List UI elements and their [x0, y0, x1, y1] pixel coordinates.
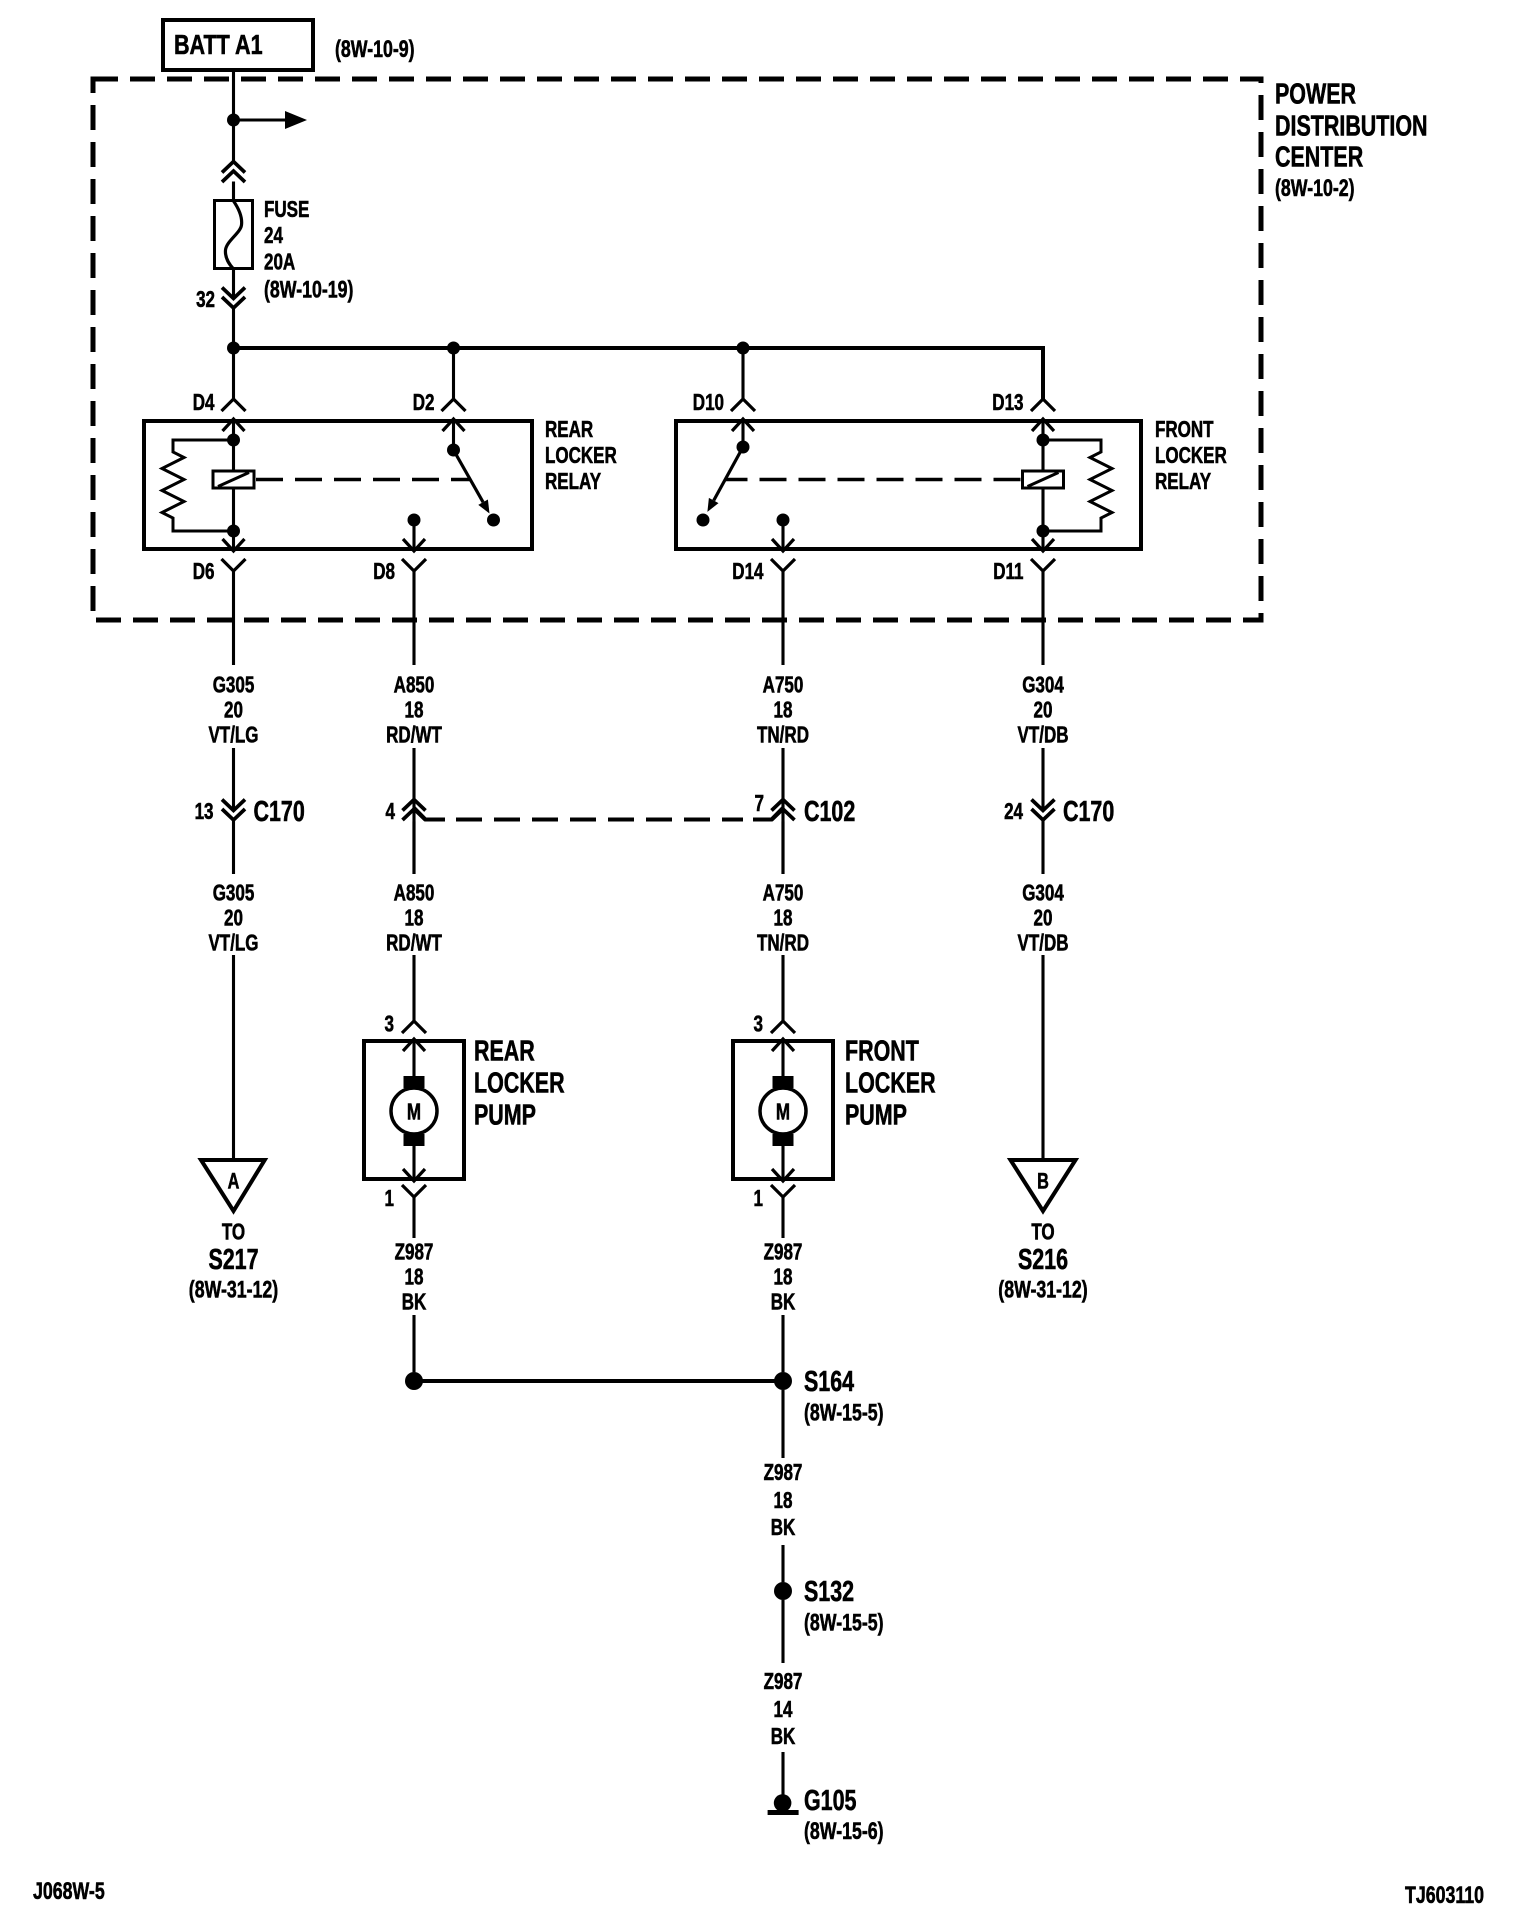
svg-text:D2: D2: [413, 391, 435, 416]
svg-text:A750: A750: [763, 881, 804, 906]
pump terminal arrow pin 3 (front): [772, 1039, 794, 1051]
wire G305 below C170: [232, 820, 235, 874]
svg-text:G305: G305: [213, 881, 255, 906]
svg-text:M: M: [407, 1100, 421, 1125]
svg-text:FRONT: FRONT: [845, 1035, 919, 1067]
wire A750 from D14: [781, 571, 784, 665]
svg-text:D4: D4: [193, 391, 215, 416]
wire A750 to connector C102: [781, 748, 784, 874]
wire motor to pin 1 (front): [781, 1146, 784, 1181]
rear relay coil: [213, 471, 254, 488]
pin D6: [222, 559, 246, 571]
svg-text:POWER: POWER: [1275, 78, 1356, 110]
wire A850 from D8: [412, 571, 415, 665]
svg-text:14: 14: [774, 1698, 794, 1723]
splice junction node (rear pump ground): [405, 1372, 423, 1390]
svg-text:D14: D14: [732, 560, 764, 585]
svg-text:18: 18: [405, 906, 424, 931]
wire G304 below C170: [1041, 820, 1044, 874]
wire A850 to pump pin 3: [412, 955, 415, 1021]
svg-text:FRONT: FRONT: [1155, 418, 1214, 443]
pin 1 of rear locker pump: [402, 1185, 426, 1197]
svg-text:S132: S132: [804, 1576, 854, 1608]
pump terminal arrow pin 3 (rear): [403, 1039, 425, 1051]
relay terminal arrow D13: [1032, 419, 1054, 431]
svg-text:LOCKER: LOCKER: [545, 444, 617, 469]
motor brush terminal bottom (front): [773, 1134, 794, 1146]
pin 3 of rear locker pump: [402, 1021, 426, 1033]
power distribution center dashed box: [93, 79, 1261, 620]
motor M of front locker pump: [760, 1088, 806, 1134]
svg-text:(8W-15-5): (8W-15-5): [804, 1610, 884, 1636]
front relay coil: [1023, 471, 1064, 488]
node coil top (rear relay): [227, 434, 240, 447]
svg-text:C102: C102: [804, 796, 855, 828]
svg-text:(8W-31-12): (8W-31-12): [189, 1277, 278, 1303]
rear relay switch blade: [454, 450, 484, 502]
svg-text:BK: BK: [771, 1290, 796, 1315]
svg-text:C170: C170: [254, 796, 305, 828]
junction node at D10 branch: [737, 342, 750, 355]
front relay switch blade: [714, 447, 743, 501]
wire pin 3 to motor (front): [781, 1039, 784, 1076]
svg-text:3: 3: [754, 1012, 763, 1037]
motor brush terminal bottom (rear): [404, 1134, 425, 1146]
rear relay common contact node D8: [408, 514, 421, 527]
dashed harness link C102: [456, 818, 743, 822]
wire G305 to off-page A: [232, 955, 235, 1160]
wire Z987 from front pump: [781, 1197, 784, 1238]
node coil bottom (front relay): [1037, 525, 1050, 538]
svg-text:13: 13: [195, 800, 214, 825]
rear locker relay box: [144, 421, 532, 549]
bus wire from fuse to relay pins D4 D2 D10 D13: [234, 348, 1044, 399]
wire Z987 rear to splice: [412, 1315, 415, 1372]
pin 3 of front locker pump: [771, 1021, 795, 1033]
svg-text:20: 20: [224, 906, 243, 931]
svg-text:TO: TO: [1031, 1220, 1054, 1245]
ground link wire to S164: [414, 1379, 783, 1383]
relay terminal arrow D14: [772, 539, 794, 551]
off-page connector triangle B: [1011, 1160, 1076, 1211]
wire motor to pin 1 (rear): [412, 1146, 415, 1181]
svg-text:7: 7: [755, 792, 764, 817]
svg-text:18: 18: [405, 698, 424, 723]
off-page connector triangle A: [201, 1160, 265, 1211]
svg-text:S216: S216: [1018, 1244, 1068, 1276]
ground G105 symbol: [774, 1794, 792, 1812]
wire Z987 front to splice S164: [781, 1315, 784, 1372]
svg-text:D11: D11: [993, 560, 1023, 585]
svg-text:DISTRIBUTION: DISTRIBUTION: [1275, 110, 1428, 142]
rear relay normally-open contact node: [487, 514, 500, 527]
svg-text:D13: D13: [992, 391, 1023, 416]
svg-text:RD/WT: RD/WT: [386, 931, 442, 956]
pin D2: [442, 399, 466, 411]
solid stub from pin 4 chevron: [414, 808, 445, 820]
pin D14: [771, 559, 795, 571]
pin D11: [1031, 559, 1055, 571]
svg-text:A850: A850: [394, 673, 435, 698]
node coil top (front relay): [1037, 434, 1050, 447]
svg-text:(8W-10-19): (8W-10-19): [264, 277, 353, 303]
svg-text:A: A: [228, 1169, 240, 1194]
pin D8: [402, 559, 426, 571]
rear relay switch pivot node: [447, 444, 460, 457]
wire A750 to pump pin 3: [781, 955, 784, 1021]
svg-text:A750: A750: [763, 673, 804, 698]
wire Z987 from rear pump: [412, 1197, 415, 1238]
svg-text:TJ603110: TJ603110: [1405, 1883, 1484, 1909]
svg-text:(8W-10-9): (8W-10-9): [335, 37, 415, 63]
svg-text:20: 20: [224, 698, 243, 723]
svg-text:18: 18: [405, 1265, 424, 1290]
svg-text:VT/DB: VT/DB: [1017, 931, 1068, 956]
svg-text:S164: S164: [804, 1366, 855, 1398]
svg-text:FUSE: FUSE: [264, 198, 309, 223]
svg-text:18: 18: [774, 906, 793, 931]
svg-text:VT/DB: VT/DB: [1017, 723, 1068, 748]
relay terminal arrow D2: [443, 419, 465, 431]
wire A750 below C102: [781, 822, 784, 875]
pin 1 of front locker pump: [771, 1185, 795, 1197]
wire D4 terminal to coil: [232, 419, 235, 471]
wire D8 contact to terminal: [412, 520, 415, 551]
svg-text:(8W-10-2): (8W-10-2): [1275, 176, 1355, 202]
wire pin 32 to bus: [232, 308, 235, 350]
wire Z987 below S132: [781, 1600, 784, 1663]
wire chevron to fuse: [232, 182, 235, 202]
inline connector chevron on battery feed: [222, 162, 245, 183]
wire A850 to connector C102: [412, 748, 415, 874]
svg-text:LOCKER: LOCKER: [845, 1067, 936, 1099]
wire D10 terminal to switch pivot: [741, 419, 744, 447]
wire coil to D11 terminal: [1041, 488, 1044, 551]
front locker relay box: [676, 421, 1141, 549]
svg-text:C170: C170: [1063, 796, 1114, 828]
wire Z987 to ground G105: [781, 1752, 784, 1796]
relay terminal arrow D8: [403, 539, 425, 551]
svg-text:Z987: Z987: [764, 1240, 803, 1265]
svg-text:G105: G105: [804, 1785, 856, 1817]
pin D13: [1031, 399, 1055, 411]
svg-text:20A: 20A: [264, 250, 296, 275]
svg-text:BK: BK: [771, 1725, 796, 1750]
relay terminal arrow D6: [223, 539, 245, 551]
front relay suppression resistor: [1043, 440, 1112, 531]
rear relay coil-armature dashed link: [256, 478, 470, 482]
pin D10: [731, 399, 755, 411]
junction node at D2 branch: [447, 342, 460, 355]
wire G305 to connector C170: [232, 748, 235, 808]
svg-text:RELAY: RELAY: [545, 470, 602, 495]
svg-text:20: 20: [1034, 906, 1053, 931]
svg-text:A850: A850: [394, 881, 435, 906]
motor M of rear locker pump: [391, 1088, 437, 1134]
front locker pump box: [733, 1041, 833, 1179]
pump terminal arrow pin 1 (rear): [403, 1169, 425, 1181]
svg-text:VT/LG: VT/LG: [208, 931, 258, 956]
svg-text:D8: D8: [373, 560, 395, 585]
battery feed box BATT A1: [163, 20, 313, 70]
connector C102 pin 7 chevron: [772, 800, 795, 821]
svg-text:Z987: Z987: [395, 1240, 434, 1265]
wire fuse to pin 32 chevron: [232, 269, 235, 296]
front relay coil-armature dashed link: [725, 478, 1021, 482]
svg-text:LOCKER: LOCKER: [1155, 444, 1227, 469]
svg-text:Z987: Z987: [764, 1670, 803, 1695]
svg-text:REAR: REAR: [474, 1035, 535, 1067]
splice S164: [774, 1372, 792, 1390]
motor brush terminal top (rear): [404, 1076, 425, 1088]
front relay switch pivot node: [737, 441, 750, 454]
svg-text:Z987: Z987: [764, 1461, 803, 1486]
wire G305 from D6: [232, 571, 235, 665]
svg-text:RD/WT: RD/WT: [386, 723, 442, 748]
wire bus to pin D2: [452, 348, 455, 399]
svg-text:(8W-15-6): (8W-15-6): [804, 1818, 884, 1844]
wire pin 3 to motor (rear): [412, 1039, 415, 1076]
wire coil to D6 terminal: [232, 488, 235, 551]
relay terminal arrow D10: [732, 419, 754, 431]
svg-text:20: 20: [1034, 698, 1053, 723]
svg-text:G304: G304: [1022, 673, 1064, 698]
front relay normally-open contact node: [697, 514, 710, 527]
svg-text:PUMP: PUMP: [474, 1099, 536, 1131]
node coil bottom (rear relay): [227, 525, 240, 538]
PDC pin 32 connector chevron: [222, 288, 245, 309]
svg-text:B: B: [1037, 1169, 1049, 1194]
connector C170 pin 24 chevron: [1032, 800, 1055, 821]
svg-text:G305: G305: [213, 673, 255, 698]
pump terminal arrow pin 1 (front): [772, 1169, 794, 1181]
svg-text:S217: S217: [208, 1244, 258, 1276]
rear locker pump box: [364, 1041, 464, 1179]
svg-text:J068W-5: J068W-5: [33, 1879, 105, 1905]
svg-text:4: 4: [386, 800, 396, 825]
svg-text:PUMP: PUMP: [845, 1099, 907, 1131]
svg-text:(8W-15-5): (8W-15-5): [804, 1400, 884, 1426]
wire Z987 below S164: [781, 1390, 784, 1458]
motor brush terminal top (front): [773, 1076, 794, 1088]
svg-text:REAR: REAR: [545, 418, 594, 443]
wire D13 terminal to coil: [1041, 419, 1044, 471]
wire bus to pin D4: [232, 348, 235, 399]
junction node at D4 branch: [227, 342, 240, 355]
svg-text:18: 18: [774, 1489, 793, 1514]
wire D2 terminal to switch pivot: [452, 419, 455, 450]
wire G304 to connector C170: [1041, 748, 1044, 808]
wire D14 contact to terminal: [781, 520, 784, 551]
svg-text:G304: G304: [1022, 881, 1064, 906]
svg-text:M: M: [776, 1100, 790, 1125]
svg-text:32: 32: [196, 288, 215, 313]
junction node battery feed: [227, 114, 240, 127]
svg-text:TN/RD: TN/RD: [757, 931, 809, 956]
wire G304 from D11: [1041, 571, 1044, 665]
wire battery feed into PDC: [232, 70, 235, 162]
svg-text:D10: D10: [693, 391, 724, 416]
svg-text:(8W-31-12): (8W-31-12): [998, 1277, 1087, 1303]
svg-text:1: 1: [385, 1187, 394, 1212]
rear relay suppression resistor: [162, 440, 234, 531]
svg-text:BATT A1: BATT A1: [174, 29, 263, 60]
svg-text:VT/LG: VT/LG: [208, 723, 258, 748]
svg-text:BK: BK: [771, 1516, 796, 1541]
svg-text:TN/RD: TN/RD: [757, 723, 809, 748]
svg-text:18: 18: [774, 1265, 793, 1290]
svg-text:18: 18: [774, 698, 793, 723]
wire bus to pin D10: [741, 348, 744, 399]
wire G304 to off-page B: [1041, 955, 1044, 1160]
svg-text:3: 3: [385, 1012, 394, 1037]
feed arrow to other circuits: [234, 118, 287, 121]
front relay common contact node D14: [777, 514, 790, 527]
svg-text:CENTER: CENTER: [1275, 141, 1363, 173]
svg-text:1: 1: [754, 1187, 763, 1212]
relay terminal arrow D4: [223, 419, 245, 431]
solid stub to pin 7 chevron: [753, 808, 783, 820]
svg-text:24: 24: [264, 224, 284, 249]
wire A850 below C102: [412, 822, 415, 875]
svg-text:24: 24: [1004, 800, 1024, 825]
svg-text:D6: D6: [193, 560, 215, 585]
connector C170 pin 13 chevron: [222, 800, 245, 821]
svg-text:LOCKER: LOCKER: [474, 1067, 565, 1099]
pin D4: [222, 399, 246, 411]
splice S132: [774, 1582, 792, 1600]
svg-text:RELAY: RELAY: [1155, 470, 1212, 495]
svg-text:BK: BK: [402, 1290, 427, 1315]
fuse 24 20A: [215, 201, 253, 269]
relay terminal arrow D11: [1032, 539, 1054, 551]
wire Z987 to splice S132: [781, 1545, 784, 1582]
connector C102 pin 4 chevron: [403, 800, 426, 821]
svg-text:TO: TO: [222, 1220, 245, 1245]
